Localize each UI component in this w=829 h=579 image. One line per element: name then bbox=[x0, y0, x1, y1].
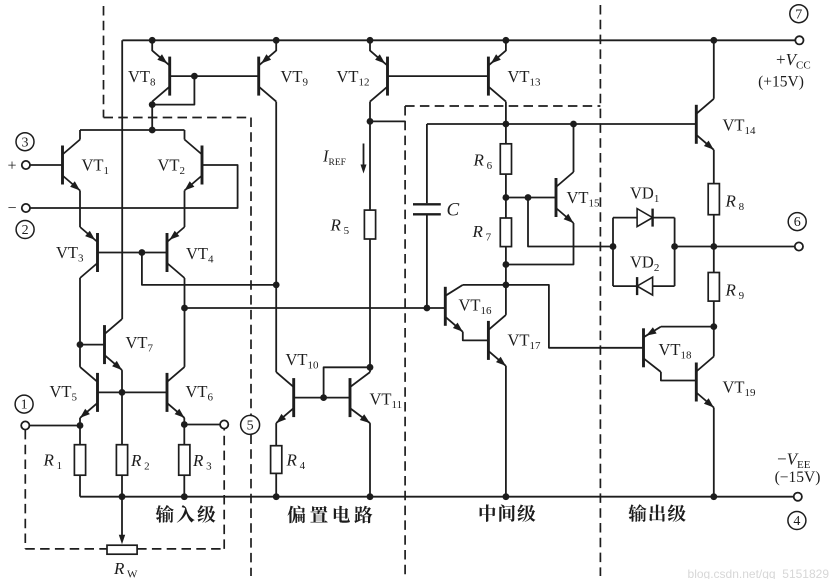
wire VT3 collector to VT5 bbox=[79, 278, 81, 367]
transistor VT14 bbox=[695, 105, 698, 144]
svg-text:blog.csdn.net/qq_5151829: blog.csdn.net/qq_5151829 bbox=[688, 567, 829, 579]
terminal pin 4 VEE bbox=[794, 493, 802, 501]
external pot dashed bottom right bbox=[137, 548, 224, 550]
diode bridge right rail bbox=[674, 218, 676, 287]
transistor VT12 bbox=[386, 57, 389, 96]
wire VT5-VT6 base link bbox=[98, 391, 168, 393]
wire VT10-VT11 base link bbox=[294, 397, 350, 399]
terminal pin 6 bbox=[795, 242, 803, 250]
svg-text:(−15V): (−15V) bbox=[775, 469, 821, 486]
node input collectors junction bbox=[149, 127, 156, 134]
node output junction bbox=[710, 243, 717, 250]
transistor VT2 bbox=[201, 146, 204, 185]
wire VT14 emitter to R8 bbox=[713, 150, 715, 184]
stage boundary bias/middle dashed bbox=[404, 106, 406, 576]
wire input pair collectors bbox=[80, 129, 185, 131]
terminal pin 1 bbox=[21, 421, 29, 429]
transistor VT13 bbox=[487, 57, 490, 96]
transistor VT9 bbox=[257, 57, 260, 96]
svg-text:(+15V): (+15V) bbox=[758, 74, 804, 91]
transistor VT7 bbox=[103, 325, 106, 364]
external pot dashed bottom left bbox=[25, 548, 107, 550]
transistor VT16 bbox=[444, 287, 447, 326]
wire VT12 emitter drop bbox=[369, 40, 371, 51]
pin 6 bbox=[788, 213, 806, 231]
node VT9 collector node bbox=[273, 282, 280, 289]
pin 1 bbox=[15, 395, 33, 413]
terminal - input bbox=[22, 204, 30, 212]
resistor R9 bbox=[713, 247, 715, 273]
diode VD1 bbox=[637, 209, 653, 227]
resistor R7 bbox=[500, 218, 511, 247]
wire base tie to VT9 collector bbox=[142, 253, 276, 285]
resistor R6 bbox=[500, 144, 511, 174]
transistor VT4 bbox=[166, 233, 169, 272]
node VT18 emitter junction bbox=[710, 323, 717, 330]
wire VT17 collector riser bbox=[505, 285, 507, 315]
svg-text:6: 6 bbox=[794, 215, 801, 230]
terminal pin 7 VCC bbox=[795, 36, 803, 44]
wire R5 to VT11 collector bbox=[369, 239, 371, 372]
wire collector node to VT18 base bbox=[506, 285, 644, 348]
external pot dashed pin5 bbox=[223, 429, 225, 549]
wire VCC top rail bbox=[122, 39, 795, 41]
stage boundary input top dashed bbox=[104, 117, 252, 119]
resistor R1 bbox=[79, 426, 81, 445]
wire inverting input to VT2 base bbox=[30, 165, 238, 208]
node second stage input bbox=[181, 305, 188, 312]
node pin5-R3 junction bbox=[181, 421, 188, 428]
node rail-VT11 junction bbox=[367, 493, 374, 500]
transistor VT8 bbox=[168, 57, 171, 96]
svg-text:7: 7 bbox=[795, 7, 802, 22]
capacitor C bbox=[413, 203, 441, 205]
wire VT10 emitter to R4 bbox=[275, 423, 277, 446]
wire R9 to VT18 emitter node bbox=[713, 301, 715, 327]
node junction VCC-VT9 bbox=[273, 37, 280, 44]
wire VT2 collector riser bbox=[184, 130, 186, 140]
node junction VCC-VT13 bbox=[503, 37, 510, 44]
node VT3-VT4 base junction bbox=[139, 249, 146, 256]
wire VT3-VT4 base link bbox=[98, 252, 168, 254]
node VT7 base tap bbox=[77, 341, 84, 348]
svg-text:C: C bbox=[447, 200, 460, 221]
wire VEE bottom rail bbox=[80, 496, 794, 498]
wire VT7 base bbox=[80, 344, 105, 346]
pin 7 bbox=[790, 5, 808, 23]
wire VT15 base bbox=[506, 197, 556, 199]
wire capacitor to VT16 base node bbox=[426, 214, 428, 308]
node rail-R4 junction bbox=[273, 493, 280, 500]
wire VT8 base-collector tie bbox=[152, 76, 194, 105]
wire VT6 collector drop bbox=[184, 308, 186, 367]
svg-text:−: − bbox=[7, 200, 16, 217]
transistor VT11 bbox=[349, 378, 352, 417]
transistor VT15 bbox=[555, 178, 558, 217]
wire left vertical VCC to VT7 collector bbox=[121, 40, 123, 319]
resistor R5 bbox=[364, 210, 375, 239]
wire VT17 emitter to rail bbox=[505, 366, 507, 497]
wire VT1 emitter to VT3 bbox=[79, 191, 81, 228]
wire VT7 emitter drop bbox=[121, 370, 123, 392]
svg-text:2: 2 bbox=[22, 223, 29, 238]
svg-text:+: + bbox=[7, 158, 16, 175]
node rail-R3 junction bbox=[181, 493, 188, 500]
node rail-VT19 junction bbox=[710, 493, 717, 500]
wire VT2 emitter to VT4 bbox=[184, 191, 186, 228]
resistor R2 bbox=[116, 445, 127, 476]
node rail-R2 junction bbox=[119, 493, 126, 500]
wire VT1 collector riser bbox=[79, 130, 81, 140]
wire VT11 emitter to rail bbox=[369, 423, 371, 497]
transistor VT19 bbox=[695, 363, 698, 402]
resistor R3 bbox=[183, 425, 185, 445]
node bridge left junction bbox=[610, 243, 617, 250]
wire second stage output to VT14 base bbox=[427, 123, 696, 125]
node R5-VT11 collector junction bbox=[367, 364, 374, 371]
wire VT18 collector to VT19 base bbox=[661, 372, 696, 381]
transistor VT1 bbox=[61, 146, 64, 185]
stage boundary middle top dashed bbox=[405, 105, 600, 107]
node VT5-VT6 base junction bbox=[119, 389, 126, 396]
terminal pin 5 bbox=[220, 420, 228, 428]
wire VT15 emitter return bbox=[506, 223, 574, 265]
wire R8 to output node bbox=[713, 215, 715, 247]
node VD bridge tap junction bbox=[525, 194, 532, 201]
node IREF node bbox=[367, 118, 374, 125]
wire IREF stub to boundary bbox=[370, 120, 405, 122]
resistor R4 bbox=[271, 446, 282, 474]
node VT8 base junction bbox=[191, 73, 198, 80]
wire noninverting input to VT1 base bbox=[30, 164, 63, 166]
svg-text:4: 4 bbox=[793, 514, 800, 529]
wire VT12-VT13 base link bbox=[388, 75, 489, 77]
node C compensation tap bbox=[424, 305, 431, 312]
wire VT9 collector to VT10 collector bbox=[275, 102, 277, 373]
wire R7 to VT16 collector node bbox=[505, 247, 507, 285]
node VT15 emitter junction bbox=[503, 261, 510, 268]
node VT10-VT11 base junction bbox=[320, 394, 327, 401]
svg-text:5: 5 bbox=[247, 419, 254, 434]
wire IREF to R5 bbox=[369, 121, 371, 210]
label middle stage bbox=[480, 504, 496, 521]
wire VT13 collector to R6 bbox=[505, 102, 507, 144]
wire VT16 collector link bbox=[463, 284, 506, 286]
transistor VT3 bbox=[96, 233, 99, 272]
wire VT15 collector riser bbox=[573, 124, 575, 172]
wire to VT16 base bbox=[185, 307, 446, 309]
label input stage bbox=[156, 505, 174, 523]
node VT13-R6 wire junction bbox=[503, 121, 510, 128]
transistor VT10 bbox=[292, 378, 295, 417]
node pin1-R1 junction bbox=[77, 422, 84, 429]
diode bridge bottom wire bbox=[613, 285, 675, 287]
svg-text:1: 1 bbox=[21, 398, 28, 413]
wire VT9 emitter drop bbox=[275, 40, 277, 51]
wire compensation riser bbox=[426, 124, 428, 203]
pin 2 bbox=[16, 221, 34, 239]
wire VT14 collector to VCC bbox=[713, 40, 715, 99]
external pot dashed pin1 bbox=[24, 430, 26, 549]
node junction VCC-VT12 bbox=[367, 37, 374, 44]
node VT15 collector junction bbox=[570, 121, 577, 128]
node rail-VT17 junction bbox=[503, 493, 510, 500]
resistor R8 bbox=[708, 184, 719, 215]
wire VT19 emitter to rail bbox=[713, 408, 715, 497]
wire VT19 collector riser bbox=[713, 327, 715, 357]
stage boundary middle/output dashed bbox=[599, 5, 601, 576]
transistor VT17 bbox=[487, 321, 490, 360]
terminal + input bbox=[22, 161, 30, 169]
wire base junction to R2 bbox=[121, 392, 123, 444]
svg-text:3: 3 bbox=[22, 135, 29, 150]
wire pin 5 stub bbox=[184, 424, 220, 426]
transistor VT5 bbox=[96, 373, 99, 412]
transistor VT6 bbox=[166, 373, 169, 412]
stage boundary input/bias dashed bbox=[250, 118, 252, 416]
current arrow IREF bbox=[363, 144, 365, 167]
potentiometer RW body bbox=[107, 545, 137, 554]
stage boundary input left dashed bbox=[103, 6, 105, 118]
wire pin 1 to R1 bbox=[29, 425, 80, 427]
wire VT16 emitter to VT17 base bbox=[463, 332, 489, 341]
label output stage bbox=[628, 504, 646, 522]
diode bridge top wire bbox=[613, 217, 675, 219]
pin 5 bbox=[241, 415, 260, 434]
transistor VT18 bbox=[642, 328, 645, 367]
pin 3 bbox=[16, 133, 34, 151]
wire VT8-VT9 base link bbox=[170, 75, 259, 77]
wire VT8 collector to input pair bbox=[151, 102, 153, 130]
wire VT8 emitter drop bbox=[151, 40, 153, 51]
pin 4 bbox=[788, 512, 806, 530]
wire VT18 emitter link bbox=[661, 326, 714, 328]
potentiometer RW wiper arrow bbox=[121, 497, 123, 537]
node junction VCC-VT14 bbox=[710, 37, 717, 44]
node VT8 collector junction bbox=[149, 101, 156, 108]
node bridge right junction bbox=[671, 243, 678, 250]
wire VT4 collector drop bbox=[184, 278, 186, 308]
diode bridge left rail bbox=[612, 218, 614, 287]
wire VT6 emitter drop bbox=[183, 418, 185, 425]
wire VT12 collector drop bbox=[369, 102, 371, 122]
node R6-R7-VT15 base junction bbox=[503, 194, 510, 201]
diode VD2 bbox=[637, 277, 653, 295]
wire R6 to R7 bbox=[505, 174, 507, 218]
wire VT13 emitter drop bbox=[505, 40, 507, 51]
wire tap to diode bridge bbox=[528, 198, 613, 247]
label bias circuit bbox=[288, 506, 306, 524]
node junction VCC-VT8 bbox=[149, 37, 156, 44]
wire base tie riser bbox=[324, 367, 370, 397]
wire VT5 emitter drop bbox=[79, 418, 81, 426]
node VT16-VT17 collector junction bbox=[503, 282, 510, 289]
wire output node to pin 6 bbox=[675, 246, 795, 248]
